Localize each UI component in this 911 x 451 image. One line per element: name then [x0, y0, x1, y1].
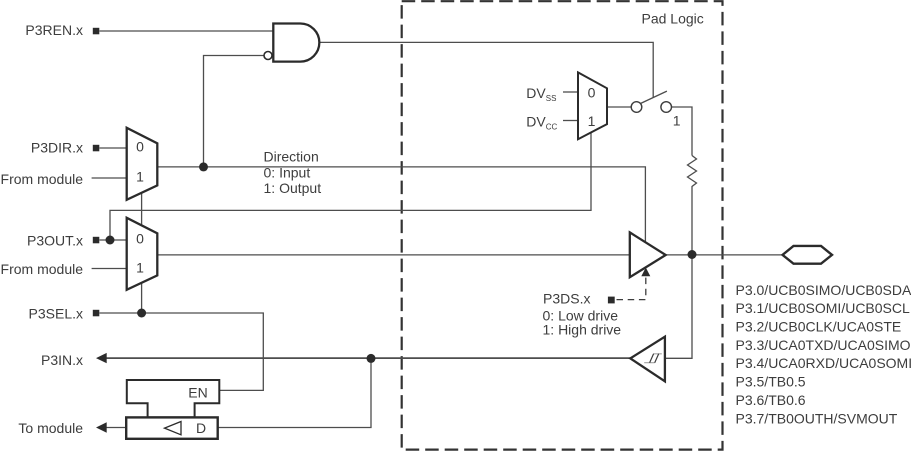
svg-text:EN: EN	[188, 384, 207, 400]
svg-text:P3.4/UCA0RXD/UCA0SOMI: P3.4/UCA0RXD/UCA0SOMI	[736, 355, 911, 371]
svg-text:DVCC: DVCC	[526, 113, 557, 131]
svg-text:From module: From module	[1, 171, 84, 187]
svg-text:P3REN.x: P3REN.x	[25, 22, 83, 38]
svg-text:1: Output: 1: Output	[264, 180, 322, 196]
svg-text:P3IN.x: P3IN.x	[41, 352, 83, 368]
svg-text:P3OUT.x: P3OUT.x	[27, 233, 83, 249]
svg-text:0: 0	[136, 231, 144, 247]
svg-text:P3DIR.x: P3DIR.x	[31, 140, 83, 156]
svg-text:1: 1	[136, 169, 144, 185]
svg-text:P3.3/UCA0TXD/UCA0SIMO: P3.3/UCA0TXD/UCA0SIMO	[736, 337, 911, 353]
svg-text:0: 0	[588, 84, 596, 100]
svg-text:1: 1	[673, 113, 681, 129]
svg-text:Direction: Direction	[264, 149, 319, 165]
svg-text:P3.2/UCB0CLK/UCA0STE: P3.2/UCB0CLK/UCA0STE	[736, 319, 902, 335]
svg-text:1: 1	[588, 113, 596, 129]
svg-text:Pad Logic: Pad Logic	[642, 11, 704, 27]
svg-text:0: Input: 0: Input	[264, 164, 311, 180]
svg-text:From module: From module	[1, 261, 84, 277]
svg-text:To module: To module	[18, 420, 83, 436]
svg-text:P3.7/TB0OUTH/SVMOUT: P3.7/TB0OUTH/SVMOUT	[736, 410, 898, 426]
svg-text:P3.0/UCB0SIMO/UCB0SDA: P3.0/UCB0SIMO/UCB0SDA	[736, 282, 911, 298]
svg-text:D: D	[196, 420, 206, 436]
svg-text:P3SEL.x: P3SEL.x	[29, 305, 83, 321]
svg-text:DVSS: DVSS	[526, 85, 556, 103]
svg-text:P3.5/TB0.5: P3.5/TB0.5	[736, 374, 806, 390]
svg-text:P3DS.x: P3DS.x	[543, 291, 590, 307]
svg-text:P3.1/UCB0SOMI/UCB0SCL: P3.1/UCB0SOMI/UCB0SCL	[736, 300, 910, 316]
svg-text:1: 1	[136, 259, 144, 275]
svg-text:0: 0	[136, 139, 144, 155]
svg-text:P3.6/TB0.6: P3.6/TB0.6	[736, 392, 806, 408]
svg-text:1: High drive: 1: High drive	[543, 322, 622, 338]
